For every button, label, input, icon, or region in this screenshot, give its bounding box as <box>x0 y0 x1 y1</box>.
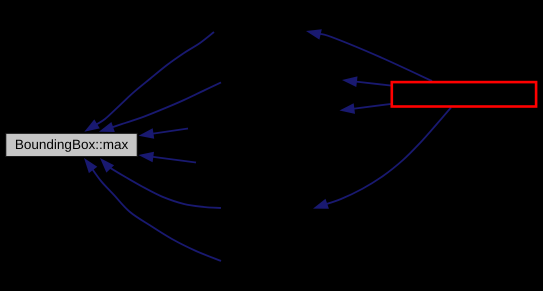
svg-text:BoundingBox::max: BoundingBox::max <box>15 137 129 152</box>
